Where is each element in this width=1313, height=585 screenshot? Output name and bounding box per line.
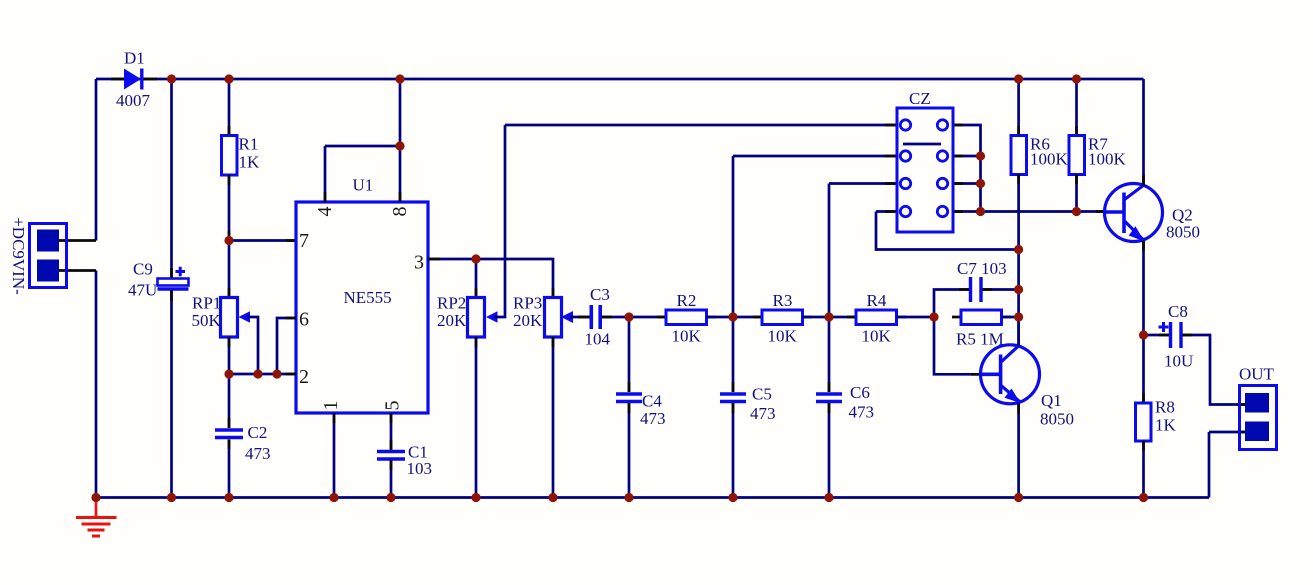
svg-text:10K: 10K (862, 327, 892, 346)
svg-text:4: 4 (314, 207, 336, 217)
svg-text:NE555: NE555 (344, 288, 392, 307)
svg-text:Q1: Q1 (1041, 391, 1062, 410)
node CZ bus 3 (976, 179, 985, 188)
node gnd RP2 (471, 493, 480, 502)
wire pin 3 (428, 258, 476, 261)
svg-text:RP1: RP1 (192, 294, 221, 313)
svg-text:20K: 20K (437, 311, 467, 330)
svg-text:R3: R3 (773, 291, 793, 310)
resistor R1 (222, 79, 261, 241)
connector +DC9VIN- (9, 217, 96, 295)
svg-text:20K: 20K (513, 311, 543, 330)
svg-text:103: 103 (407, 459, 433, 478)
wire top power rail (96, 78, 1144, 81)
wire left edge vertical upper (95, 79, 98, 241)
node pin3 (471, 254, 480, 263)
wire pin3 node to RP3 top (476, 259, 553, 298)
svg-text:473: 473 (245, 444, 271, 463)
node R2-R3 (728, 312, 737, 321)
wire (733, 316, 762, 319)
wire pin 2 (229, 373, 296, 376)
potentiometer RP2 (437, 125, 505, 498)
capacitor C8 (1144, 302, 1248, 405)
wire CZ bus to Q2 base (981, 210, 1106, 213)
svg-text:R8: R8 (1155, 398, 1175, 417)
node gnd C5 (728, 493, 737, 502)
svg-text:C5: C5 (752, 385, 772, 404)
resistor R5 (952, 310, 1019, 349)
svg-text:10K: 10K (672, 327, 702, 346)
node rail-R7 (1072, 74, 1081, 83)
svg-text:R4: R4 (867, 291, 887, 310)
potentiometer RP1 (192, 241, 259, 375)
resistor R6 (1011, 79, 1069, 346)
capacitor C4 (616, 317, 666, 498)
node rail-pin8 (395, 74, 404, 83)
connector OUT (1209, 365, 1277, 498)
capacitor C9 (128, 79, 189, 498)
node R7-base (1072, 207, 1081, 216)
svg-text:R5 1M: R5 1M (956, 330, 1004, 349)
wire C5 top to CZ pin2 (733, 155, 905, 158)
resistor R2 (657, 291, 733, 346)
svg-text:R2: R2 (677, 291, 697, 310)
node Q2e-C8 (1139, 330, 1148, 339)
wire ground bus (96, 496, 1209, 499)
wire pin7 to R1/RP1 node (229, 239, 296, 242)
resistor R4 (847, 291, 934, 346)
svg-text:8050: 8050 (1166, 223, 1200, 242)
svg-text:C2: C2 (248, 423, 268, 442)
svg-text:1K: 1K (239, 153, 261, 172)
node gnd C6 (824, 493, 833, 502)
node gnd C9 (167, 493, 176, 502)
node R4-R5 (929, 312, 938, 321)
resistor R7 (1069, 79, 1127, 212)
svg-text:5: 5 (382, 401, 404, 411)
svg-text:1: 1 (320, 401, 342, 411)
svg-text:C4: C4 (642, 392, 662, 411)
svg-text:RP2: RP2 (437, 294, 466, 313)
op-amp U1 NE555 box (296, 176, 428, 414)
svg-text:C6: C6 (850, 383, 870, 402)
svg-text:47U: 47U (128, 281, 157, 300)
node gnd Q1 (1014, 493, 1023, 502)
wire pins 4 and 8 to rail (325, 79, 400, 202)
node gnd C2 (224, 493, 233, 502)
svg-text:7: 7 (299, 230, 309, 252)
svg-text:473: 473 (750, 404, 776, 423)
svg-text:CZ: CZ (909, 89, 931, 108)
svg-text:+DC9VIN-: +DC9VIN- (9, 217, 28, 295)
node rail-C9 (167, 74, 176, 83)
diode D1 (111, 49, 157, 111)
svg-text:D1: D1 (124, 49, 145, 68)
wire RP2 wiper to CZ pin1 (505, 124, 905, 127)
svg-text:10K: 10K (768, 327, 798, 346)
svg-text:RP3: RP3 (513, 294, 542, 313)
svg-text:2: 2 (299, 366, 309, 388)
svg-text:100K: 100K (1088, 150, 1127, 169)
potentiometer RP3 (513, 288, 590, 498)
node rail-R6 (1014, 74, 1023, 83)
svg-text:8050: 8050 (1040, 410, 1074, 429)
node rail-R1 (224, 74, 233, 83)
node C7 right (1014, 285, 1023, 294)
node pin2 row a (224, 369, 233, 378)
node gnd left (91, 493, 100, 502)
svg-text:U1: U1 (353, 176, 374, 195)
node CZ bus 4 (976, 207, 985, 216)
resistor R3 (753, 291, 829, 346)
capacitor C1 on pin 5 (377, 413, 432, 498)
node gnd pin1 (329, 493, 338, 502)
node gnd C1 (386, 493, 395, 502)
svg-text:C9: C9 (133, 260, 153, 279)
capacitor C5 (720, 156, 776, 498)
wire (829, 316, 856, 319)
node R5-Q1 (1014, 312, 1023, 321)
svg-text:C3: C3 (590, 285, 610, 304)
svg-text:10U: 10U (1164, 352, 1193, 371)
svg-text:OUT: OUT (1239, 365, 1275, 384)
node pin2 row c (272, 369, 281, 378)
wire left edge vertical lower (95, 271, 98, 498)
svg-text:50K: 50K (192, 311, 222, 330)
svg-text:100K: 100K (1030, 150, 1069, 169)
svg-text:C7 103: C7 103 (957, 259, 1007, 278)
node R3-R4 (824, 312, 833, 321)
svg-text:104: 104 (585, 330, 611, 349)
capacitor C2 (215, 374, 271, 498)
resistor R8 (1136, 335, 1177, 498)
node gnd RP3 (548, 493, 557, 502)
svg-text:3: 3 (414, 252, 424, 274)
node gnd R8 (1139, 493, 1148, 502)
node gnd C4 (624, 493, 633, 502)
node CZ bus 2 (976, 151, 985, 160)
wire pin 6 (277, 318, 296, 374)
node pin7 (224, 236, 233, 245)
wire pin 1 (333, 413, 336, 498)
capacitor C3 (585, 285, 630, 349)
connector CZ (876, 89, 1019, 250)
node CZ loop (1014, 245, 1023, 254)
transistor Q1 (934, 317, 1074, 498)
svg-text:8: 8 (389, 207, 411, 217)
svg-text:473: 473 (849, 403, 875, 422)
svg-text:473: 473 (640, 409, 666, 428)
node pin8-146 (395, 141, 404, 150)
wire C6 top to CZ pin3 (829, 182, 905, 185)
svg-text:R1: R1 (239, 135, 259, 154)
svg-text:1K: 1K (1155, 416, 1177, 435)
ground (76, 498, 117, 537)
svg-text:4007: 4007 (116, 91, 151, 110)
capacitor C6 (816, 184, 874, 498)
transistor Q2 (1096, 79, 1200, 335)
node pin2 row b (253, 369, 262, 378)
svg-text:C8: C8 (1168, 302, 1188, 321)
svg-text:6: 6 (299, 309, 309, 331)
wire RC network row (629, 316, 666, 319)
capacitor C7 (934, 259, 1019, 317)
node C3-R2 (624, 312, 633, 321)
